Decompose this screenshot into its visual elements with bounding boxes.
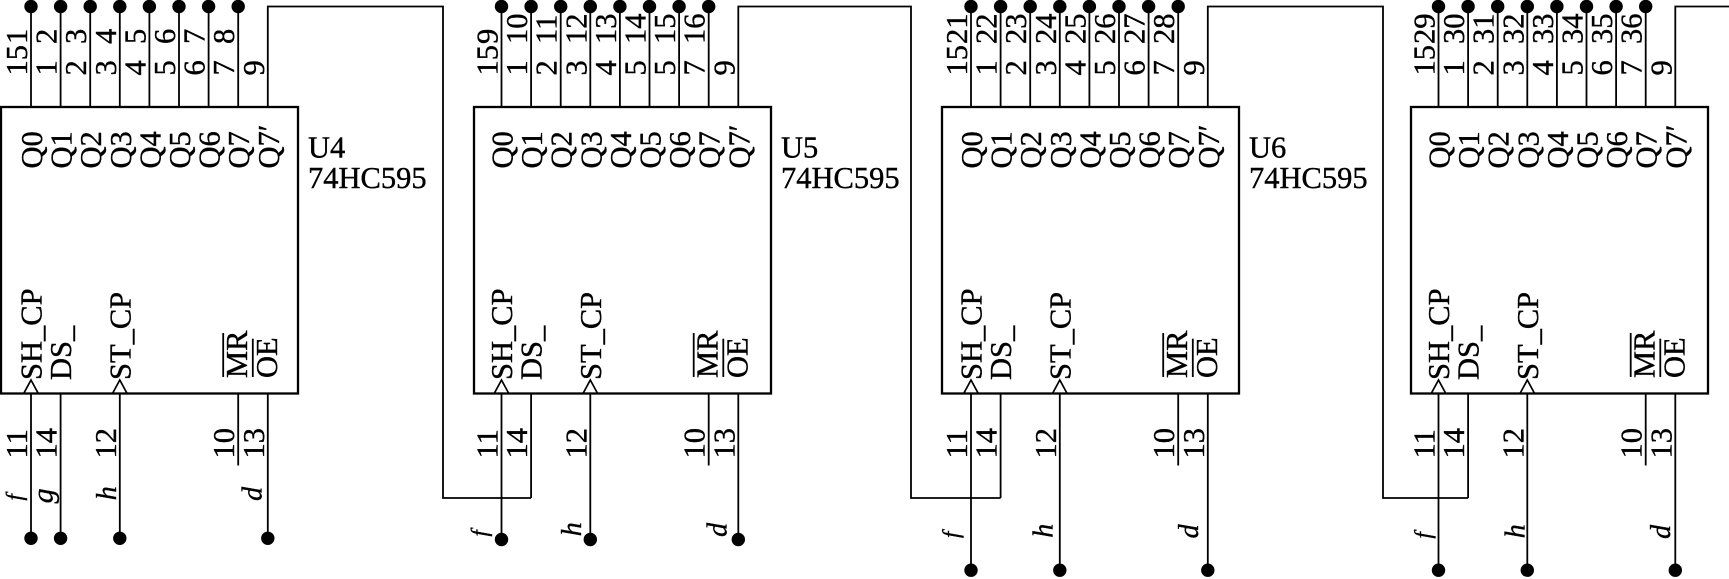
wire U4 MR (pin 10) stub xyxy=(237,394,239,466)
wire U4 Q4 output (pin 4, net 5) xyxy=(148,7,150,108)
wire cascade U5 Q7' (pin 9) to U6 DS (pin 14) xyxy=(738,7,1000,499)
svg-text:U6: U6 xyxy=(1249,130,1286,164)
svg-text:9: 9 xyxy=(1177,60,1211,75)
junction dot net 13 xyxy=(613,0,626,13)
wire U4 Q5 output (pin 5, net 6) xyxy=(178,7,180,108)
wire U4 Q3 output (pin 3, net 4) xyxy=(119,7,121,108)
svg-text:13: 13 xyxy=(707,428,741,459)
wire U5 MR (pin 10) stub xyxy=(708,394,710,466)
wire U7 ST_CP (pin 12) net h xyxy=(1526,394,1528,571)
svg-text:9: 9 xyxy=(1644,60,1678,75)
wire U7 MR (pin 10) stub xyxy=(1645,394,1647,466)
svg-text:DS_: DS_ xyxy=(44,325,78,380)
wire U6 Q7 output (pin 7, net 28) xyxy=(1177,7,1179,108)
junction dot net 12 xyxy=(584,0,597,13)
IC U7 74HC595 body xyxy=(1411,107,1708,394)
junction dot net 8 xyxy=(232,0,245,13)
overline of OE at U6 xyxy=(1192,339,1194,377)
overline of OE at U5 xyxy=(722,339,724,377)
svg-text:U4: U4 xyxy=(308,130,345,164)
clock wedge SH_CP of U7 xyxy=(1431,380,1446,394)
wire U7 SH_CP (pin 11) net f xyxy=(1438,394,1440,571)
svg-text:28: 28 xyxy=(1147,14,1181,45)
clock wedge ST_CP of U5 xyxy=(583,380,598,394)
junction dot net 25 xyxy=(1083,0,1096,13)
wire U7 Q2 output (pin 2, net 31) xyxy=(1497,7,1499,108)
svg-text:74HC595: 74HC595 xyxy=(308,161,427,195)
svg-text:h: h xyxy=(1501,524,1532,538)
svg-text:36: 36 xyxy=(1615,14,1649,45)
IC U4 74HC595 body xyxy=(1,107,298,394)
junction dot net d at U4 xyxy=(261,532,274,545)
wire U4 Q6 output (pin 6, net 7) xyxy=(208,7,210,108)
svg-text:13: 13 xyxy=(237,428,271,459)
junction dot net 4 xyxy=(113,0,126,13)
svg-text:12: 12 xyxy=(89,428,123,459)
wire U5 Q4 output (pin 4, net 13) xyxy=(619,7,621,108)
junction dot net h at U5 xyxy=(584,533,597,546)
junction dot net f at U7 xyxy=(1432,564,1445,577)
svg-text:Q7′: Q7′ xyxy=(1192,125,1226,169)
svg-text:d: d xyxy=(238,486,269,501)
svg-text:74HC595: 74HC595 xyxy=(781,161,900,195)
svg-text:OE: OE xyxy=(1657,337,1691,378)
junction dot net 23 xyxy=(1023,0,1036,13)
svg-text:12: 12 xyxy=(1496,428,1530,459)
svg-text:12: 12 xyxy=(1029,428,1063,459)
wire U6 Q0 output (pin 15, net 21) xyxy=(970,7,972,108)
wire U6 SH_CP (pin 11) net f xyxy=(970,394,972,571)
wire U4 Q7 output (pin 7, net 8) xyxy=(237,7,239,108)
junction dot net 21 xyxy=(964,0,977,13)
wire U7 Q4 output (pin 4, net 33) xyxy=(1556,7,1558,108)
IC U5 74HC595 body xyxy=(474,107,771,394)
wire U7 Q7 output (pin 7, net 36) xyxy=(1645,7,1647,108)
svg-text:14: 14 xyxy=(970,428,1004,459)
clock wedge SH_CP of U6 xyxy=(964,380,979,394)
junction dot net g at U4 xyxy=(54,532,67,545)
junction dot net d at U5 xyxy=(732,533,745,546)
junction dot net 33 xyxy=(1550,0,1563,13)
wire cascade U4 Q7' (pin 9) to U5 DS (pin 14) xyxy=(268,7,531,499)
overline of MR at U7 xyxy=(1630,333,1632,377)
junction dot net 3 xyxy=(84,0,97,13)
wire U7 OE (pin 13) net d xyxy=(1674,394,1676,571)
svg-text:14: 14 xyxy=(1437,428,1471,459)
overline of MR at U5 xyxy=(693,333,695,377)
junction dot net 35 xyxy=(1609,0,1622,13)
overline of OE at U4 xyxy=(252,339,254,377)
wire U6 Q1 output (pin 1, net 22) xyxy=(1000,7,1002,108)
svg-text:OE: OE xyxy=(1190,337,1224,378)
wire U5 DS (pin 14) from cascade xyxy=(530,394,532,499)
wire U6 Q5 output (pin 5, net 26) xyxy=(1118,7,1120,108)
junction dot net 9 xyxy=(495,0,508,13)
svg-text:ST_CP: ST_CP xyxy=(574,292,608,380)
junction dot net 26 xyxy=(1112,0,1125,13)
svg-text:DS_: DS_ xyxy=(1452,325,1486,380)
svg-text:DS_: DS_ xyxy=(984,325,1018,380)
svg-text:14: 14 xyxy=(500,428,534,459)
svg-text:DS_: DS_ xyxy=(515,325,549,380)
wire U4 Q1 output (pin 1, net 2) xyxy=(60,7,62,108)
wire U5 OE (pin 13) net d xyxy=(737,394,739,540)
IC U6 74HC595 body xyxy=(942,107,1239,394)
svg-text:h: h xyxy=(557,522,588,536)
wire U5 Q6 output (pin 5, net 15) xyxy=(678,7,680,108)
wire U7 Q5 output (pin 5, net 34) xyxy=(1586,7,1588,108)
junction dot net 11 xyxy=(554,0,567,13)
svg-text:12: 12 xyxy=(559,428,593,459)
junction dot net 30 xyxy=(1461,0,1474,13)
junction dot net 15 xyxy=(672,0,685,13)
wire U5 Q2 output (pin 2, net 11) xyxy=(560,7,562,108)
junction dot net 29 xyxy=(1432,0,1445,13)
clock wedge SH_CP of U4 xyxy=(24,380,39,394)
junction dot net 36 xyxy=(1639,0,1652,13)
svg-text:ST_CP: ST_CP xyxy=(103,292,137,380)
junction dot net 14 xyxy=(643,0,656,13)
wire U7 Q3 output (pin 3, net 32) xyxy=(1526,7,1528,108)
wire cascade U7 Q7' (pin 9) to right edge xyxy=(1675,7,1729,108)
wire U6 OE (pin 13) net d xyxy=(1207,394,1209,571)
junction dot net d at U7 xyxy=(1669,564,1682,577)
junction dot net f at U4 xyxy=(24,532,37,545)
junction dot net 16 xyxy=(702,0,715,13)
junction dot net 1 xyxy=(24,0,37,13)
wire cascade U6 Q7' (pin 9) to U7 DS (pin 14) xyxy=(1208,7,1468,499)
svg-text:ST_CP: ST_CP xyxy=(1043,292,1077,380)
junction dot net 2 xyxy=(54,0,67,13)
wire U4 ST_CP (pin 12) net h xyxy=(119,394,121,539)
junction dot net f at U5 xyxy=(495,533,508,546)
wire U5 ST_CP (pin 12) net h xyxy=(589,394,591,540)
svg-text:h: h xyxy=(1029,524,1060,538)
junction dot net 31 xyxy=(1491,0,1504,13)
overline of MR at U4 xyxy=(222,333,224,377)
svg-text:16: 16 xyxy=(678,14,712,45)
svg-text:9: 9 xyxy=(707,60,741,75)
svg-text:13: 13 xyxy=(1644,428,1678,459)
wire U4 SH_CP (pin 11) net f xyxy=(30,394,32,539)
wire U6 MR (pin 10) stub xyxy=(1177,394,1179,466)
junction dot net 27 xyxy=(1142,0,1155,13)
overline of MR at U6 xyxy=(1162,333,1164,377)
svg-text:d: d xyxy=(1646,524,1677,539)
wire U7 Q1 output (pin 1, net 30) xyxy=(1467,7,1469,108)
overline of OE at U7 xyxy=(1659,339,1661,377)
svg-text:74HC595: 74HC595 xyxy=(1249,161,1368,195)
svg-text:h: h xyxy=(92,486,123,500)
svg-text:Q7′: Q7′ xyxy=(722,125,756,169)
svg-text:d: d xyxy=(1174,523,1205,538)
svg-text:OE: OE xyxy=(720,337,754,378)
junction dot net 34 xyxy=(1580,0,1593,13)
wire U7 Q0 output (pin 15, net 29) xyxy=(1438,7,1440,108)
junction dot net 5 xyxy=(143,0,156,13)
wire U6 Q4 output (pin 4, net 25) xyxy=(1088,7,1090,108)
wire U5 Q1 output (pin 1, net 10) xyxy=(530,7,532,108)
svg-text:U5: U5 xyxy=(781,130,818,164)
wire U7 DS (pin 14) from cascade xyxy=(1467,394,1469,499)
wire U5 Q7 output (pin 7, net 16) xyxy=(708,7,710,108)
junction dot net h at U6 xyxy=(1053,564,1066,577)
wire U6 Q3 output (pin 3, net 24) xyxy=(1059,7,1061,108)
svg-text:d: d xyxy=(703,522,734,537)
svg-text:9: 9 xyxy=(237,60,271,75)
wire U7 Q6 output (pin 6, net 35) xyxy=(1615,7,1617,108)
wire U6 DS (pin 14) from cascade xyxy=(1000,394,1002,499)
clock wedge ST_CP of U4 xyxy=(113,380,128,394)
svg-text:ST_CP: ST_CP xyxy=(1511,292,1545,380)
junction dot net 6 xyxy=(172,0,185,13)
clock wedge SH_CP of U5 xyxy=(494,380,509,394)
wire U4 Q2 output (pin 2, net 3) xyxy=(89,7,91,108)
wire U5 Q3 output (pin 3, net 12) xyxy=(589,7,591,108)
junction dot net 32 xyxy=(1521,0,1534,13)
wire U5 SH_CP (pin 11) net f xyxy=(501,394,503,540)
svg-text:OE: OE xyxy=(250,337,284,378)
junction dot net 24 xyxy=(1053,0,1066,13)
svg-text:13: 13 xyxy=(1177,428,1211,459)
wire U5 Q0 output (pin 15, net 9) xyxy=(501,7,503,108)
junction dot net h at U4 xyxy=(113,532,126,545)
wire U6 Q2 output (pin 2, net 23) xyxy=(1029,7,1031,108)
wire U4 DS (pin 14) net g xyxy=(60,394,62,539)
junction dot net f at U6 xyxy=(964,564,977,577)
junction dot net 10 xyxy=(524,0,537,13)
clock wedge ST_CP of U7 xyxy=(1520,380,1535,394)
wire U6 Q6 output (pin 6, net 27) xyxy=(1148,7,1150,108)
wire U4 Q0 output (pin 15, net 1) xyxy=(30,7,32,108)
svg-text:Q7′: Q7′ xyxy=(1659,125,1693,169)
svg-text:8: 8 xyxy=(207,29,241,44)
junction dot net d at U6 xyxy=(1201,564,1214,577)
wire U5 Q5 output (pin 5, net 14) xyxy=(649,7,651,108)
svg-text:g: g xyxy=(27,488,60,503)
wire U6 ST_CP (pin 12) net h xyxy=(1059,394,1061,571)
junction dot net 22 xyxy=(994,0,1007,13)
clock wedge ST_CP of U6 xyxy=(1053,380,1068,394)
junction dot net h at U7 xyxy=(1521,564,1534,577)
wire U4 OE (pin 13) net d xyxy=(267,394,269,539)
svg-text:14: 14 xyxy=(30,428,64,459)
svg-text:Q7′: Q7′ xyxy=(252,125,286,169)
junction dot net 7 xyxy=(202,0,215,13)
junction dot net 28 xyxy=(1172,0,1185,13)
